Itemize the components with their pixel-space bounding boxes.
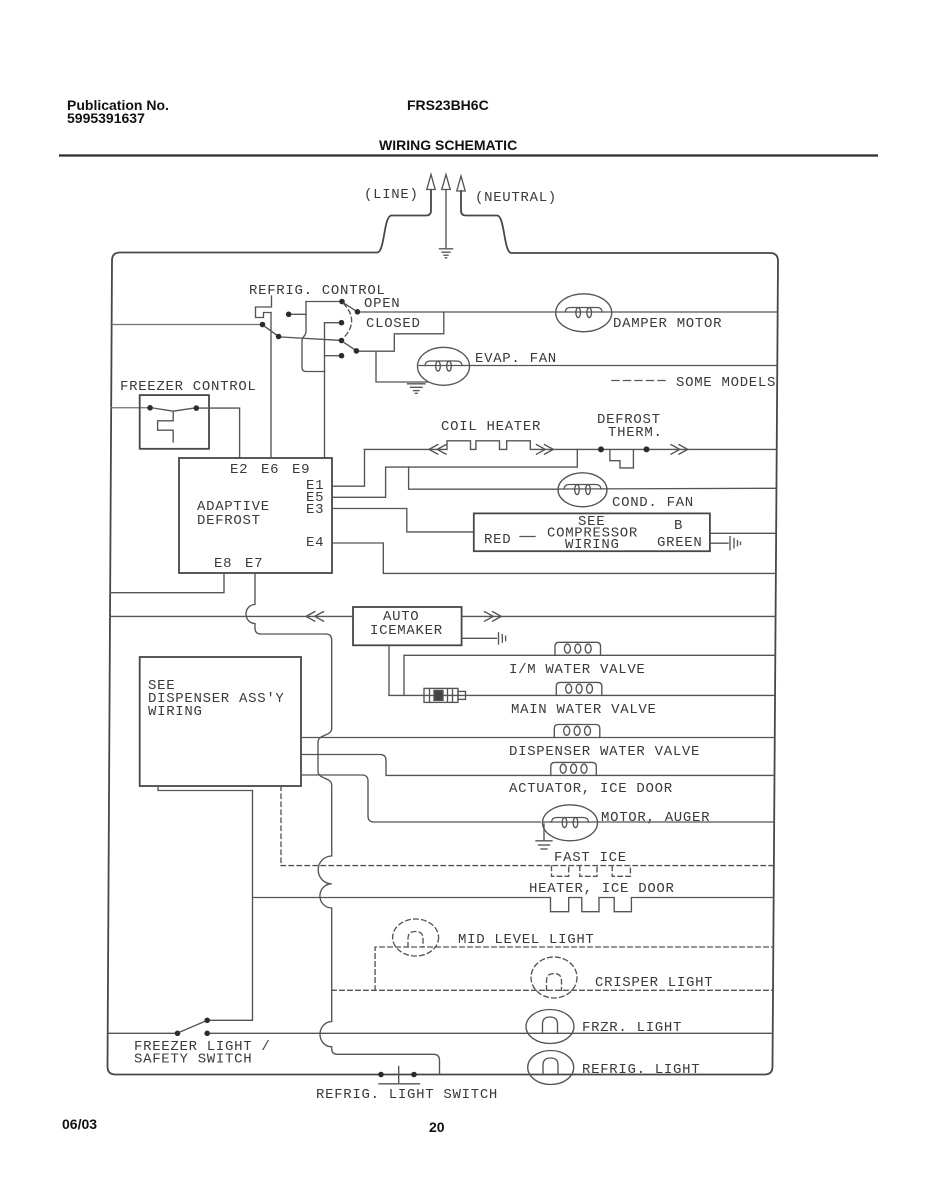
refrig control lower blade xyxy=(344,342,355,349)
refrig light switch base bar xyxy=(379,1083,420,1085)
wire E3 to compressor RED xyxy=(332,509,474,532)
wire bus E9 vertical xyxy=(324,323,326,458)
svg-text:DEFROST: DEFROST xyxy=(197,513,261,529)
svg-text:(LINE): (LINE) xyxy=(364,187,419,203)
evap fan motor M2 xyxy=(418,347,470,385)
refrig control blade contact B xyxy=(260,322,266,328)
wire E8 to line rail xyxy=(110,573,224,593)
wire B to neutral rail xyxy=(710,532,776,534)
damper motor M1 xyxy=(556,294,612,332)
wire bottom contact to bus xyxy=(325,355,339,357)
freezer control contact 2 xyxy=(194,405,200,411)
svg-text:E6: E6 xyxy=(261,462,279,478)
wire cond fan feed xyxy=(409,467,559,489)
wire CLOSED contact to bus xyxy=(325,322,339,324)
actuator ice door coil L4 xyxy=(551,762,597,775)
condenser fan motor M3 xyxy=(558,473,607,507)
auger motor M4 xyxy=(543,805,598,841)
svg-text:REFRIG. LIGHT: REFRIG. LIGHT xyxy=(582,1062,700,1078)
wire open-contact drop with hop xyxy=(302,302,325,372)
ground at auger motor xyxy=(536,824,552,849)
wire auger motor to neutral rail xyxy=(543,821,774,823)
chevron marks right of defrost therm xyxy=(671,445,688,455)
wire D to common junction xyxy=(282,337,339,340)
refrig control blade B-D xyxy=(265,326,277,335)
see dispenser assy wiring box xyxy=(140,657,301,786)
mid level light bulb xyxy=(393,919,439,956)
chevron marks right of icemaker xyxy=(485,612,502,622)
wire rail to freezer control xyxy=(111,407,147,409)
dashed fast ice heater element xyxy=(281,865,774,867)
svg-text:I/M WATER VALVE: I/M WATER VALVE xyxy=(509,662,646,678)
I/M water valve coil L1 xyxy=(555,642,601,655)
refrig control bottom contact xyxy=(339,353,345,359)
defrost thermostat terminal dot 1 xyxy=(598,446,604,452)
svg-text:5995391637: 5995391637 xyxy=(67,110,145,126)
svg-text:E4: E4 xyxy=(306,535,324,551)
wire cond fan to neutral rail xyxy=(559,487,777,490)
freezer control box xyxy=(140,395,209,449)
safety switch contact left xyxy=(175,1031,181,1037)
wire to OPEN top contact xyxy=(306,301,339,303)
svg-text:MID LEVEL LIGHT: MID LEVEL LIGHT xyxy=(458,932,595,948)
svg-text:GREEN: GREEN xyxy=(657,535,703,551)
wire dispenser box bottom pin to safety switch xyxy=(158,786,253,1020)
freezer light bulb xyxy=(526,1010,574,1044)
refrig control CLOSED contact xyxy=(339,320,345,326)
svg-text:E7: E7 xyxy=(245,556,263,572)
svg-text:MAIN WATER VALVE: MAIN WATER VALVE xyxy=(511,702,657,718)
inline connector/fuse on main valve line xyxy=(424,688,466,702)
svg-text:CRISPER LIGHT: CRISPER LIGHT xyxy=(595,975,713,991)
dashed wiper travel arc xyxy=(343,304,352,339)
wire dispenser valve line xyxy=(301,737,775,739)
wire evap fan to neutral rail xyxy=(419,365,777,367)
wire frzr light line left xyxy=(108,1032,175,1034)
safety switch blade xyxy=(180,1022,205,1033)
refrig light switch plunger xyxy=(398,1067,400,1083)
neutral supply arrow N xyxy=(457,176,465,191)
wire damper feed step-down xyxy=(359,312,443,351)
wire green to chassis ground xyxy=(710,542,728,544)
refrig control OPEN contact xyxy=(355,309,361,315)
dashed fast ice element dips xyxy=(552,866,631,876)
svg-text:E9: E9 xyxy=(292,462,310,478)
svg-text:WIRING: WIRING xyxy=(148,704,203,720)
crisper light bulb xyxy=(531,957,577,998)
svg-text:DISPENSER WATER VALVE: DISPENSER WATER VALVE xyxy=(509,744,700,760)
wire line rail to refrig control xyxy=(111,324,260,326)
wire I/M valve line xyxy=(404,655,775,695)
svg-text:SAFETY SWITCH: SAFETY SWITCH xyxy=(134,1052,252,1068)
dashed mid level light branch xyxy=(375,947,773,990)
ground symbol at supply xyxy=(440,249,453,258)
svg-text:ACTUATOR, ICE DOOR: ACTUATOR, ICE DOOR xyxy=(509,781,673,797)
svg-text:EVAP. FAN: EVAP. FAN xyxy=(475,351,557,367)
svg-text:FREEZER CONTROL: FREEZER CONTROL xyxy=(120,379,257,395)
defrost thermostat terminal dot 2 xyxy=(644,446,650,452)
wire frzr light to neutral rail xyxy=(527,1032,773,1034)
svg-text:B: B xyxy=(674,518,683,534)
auto icemaker box xyxy=(353,607,462,645)
refrig control OPEN top contact xyxy=(339,299,345,305)
wire icemaker ground stub xyxy=(462,637,497,639)
refrig light switch contact left xyxy=(378,1072,384,1078)
coil heater resistor R1 xyxy=(365,441,777,450)
svg-text:SOME MODELS: SOME MODELS xyxy=(676,375,776,391)
wire E6 from thermostat xyxy=(270,313,272,459)
svg-text:FAST ICE: FAST ICE xyxy=(554,850,627,866)
wire E5 to defrost therm side xyxy=(332,449,577,497)
wire actuator feed xyxy=(301,755,775,776)
defrost thermostat bimetal element xyxy=(610,450,634,468)
dashed crisper light line xyxy=(332,989,773,991)
wire E4 to neutral rail xyxy=(332,543,776,573)
wire auger motor feed xyxy=(301,775,541,822)
svg-text:E2: E2 xyxy=(230,462,248,478)
safety switch contact right xyxy=(204,1031,210,1037)
wire icemaker to neutral rail xyxy=(462,615,776,617)
freezer control contact 1 xyxy=(147,405,153,411)
compressor wiring box xyxy=(474,513,710,551)
ice door heater element R2 xyxy=(253,898,774,912)
wire common stub xyxy=(292,313,306,315)
svg-text:MOTOR, AUGER: MOTOR, AUGER xyxy=(601,810,710,826)
chassis ground at compressor xyxy=(730,537,741,550)
svg-text:REFRIG. LIGHT SWITCH: REFRIG. LIGHT SWITCH xyxy=(316,1087,498,1103)
line supply arrow L1 xyxy=(427,175,435,190)
svg-text:(NEUTRAL): (NEUTRAL) xyxy=(475,190,557,206)
wire E1 to coil heater xyxy=(332,449,365,486)
title rule line xyxy=(59,154,878,156)
svg-text:RED: RED xyxy=(484,532,511,548)
wire line-rail entry curve xyxy=(377,189,431,253)
svg-text:COIL HEATER: COIL HEATER xyxy=(441,419,541,435)
svg-text:WIRING SCHEMATIC: WIRING SCHEMATIC xyxy=(379,137,517,153)
dispenser water valve coil L3 xyxy=(554,725,600,738)
refrig control lower contact xyxy=(339,338,345,344)
svg-text:CLOSED: CLOSED xyxy=(366,316,421,332)
chassis ground at icemaker xyxy=(499,633,506,644)
chevron marks left of icemaker xyxy=(306,612,324,622)
ground supply arrow shaft xyxy=(442,175,450,248)
refrig light bulb xyxy=(528,1051,574,1085)
svg-text:THERM.: THERM. xyxy=(608,425,663,441)
svg-text:DAMPER MOTOR: DAMPER MOTOR xyxy=(613,316,722,332)
wire freezer control to E2 xyxy=(199,408,239,458)
svg-text:HEATER, ICE DOOR: HEATER, ICE DOOR xyxy=(529,881,675,897)
outer cabinet border with supply bump xyxy=(108,190,779,1075)
svg-text:E8: E8 xyxy=(214,556,232,572)
wire main valve line xyxy=(389,694,775,696)
wire damper motor line xyxy=(361,311,778,313)
svg-text:20: 20 xyxy=(429,1119,445,1135)
dashed fast ice feed xyxy=(280,786,282,866)
refrig control thermostat element xyxy=(256,296,272,318)
svg-text:OPEN: OPEN xyxy=(364,296,400,312)
refrig control OPEN blade xyxy=(344,303,355,310)
svg-text:06/03: 06/03 xyxy=(62,1116,97,1132)
refrig control common stub contact xyxy=(286,312,292,318)
refrig control fan contact xyxy=(354,348,360,354)
wire evap fan feed xyxy=(376,351,428,382)
legend dashed sample xyxy=(612,380,668,382)
svg-text:E3: E3 xyxy=(306,502,324,518)
freezer control thermostat element xyxy=(158,411,174,442)
wire icemaker to water valve xyxy=(388,645,390,695)
wire E7 down with hop joining bus Q xyxy=(246,573,440,1074)
main water valve coil L2 xyxy=(556,682,602,695)
svg-text:COND. FAN: COND. FAN xyxy=(612,495,694,511)
wire line rail to icemaker xyxy=(110,615,353,617)
wire frzr light line xyxy=(210,1032,526,1034)
safety switch contact upper xyxy=(204,1018,210,1024)
refrig control contact D xyxy=(276,334,282,340)
refrig light switch contact right xyxy=(411,1072,417,1078)
chevron marks right of coil heater xyxy=(537,445,554,455)
ground at evap fan xyxy=(408,384,426,394)
svg-text:WIRING: WIRING xyxy=(565,537,620,553)
adaptive defrost board U1 xyxy=(179,458,332,573)
svg-text:ICEMAKER: ICEMAKER xyxy=(370,623,443,639)
red wire stub xyxy=(520,536,535,538)
chevron marks left of coil heater xyxy=(429,445,446,455)
freezer control blade xyxy=(153,408,193,411)
svg-text:FRS23BH6C: FRS23BH6C xyxy=(407,97,489,113)
